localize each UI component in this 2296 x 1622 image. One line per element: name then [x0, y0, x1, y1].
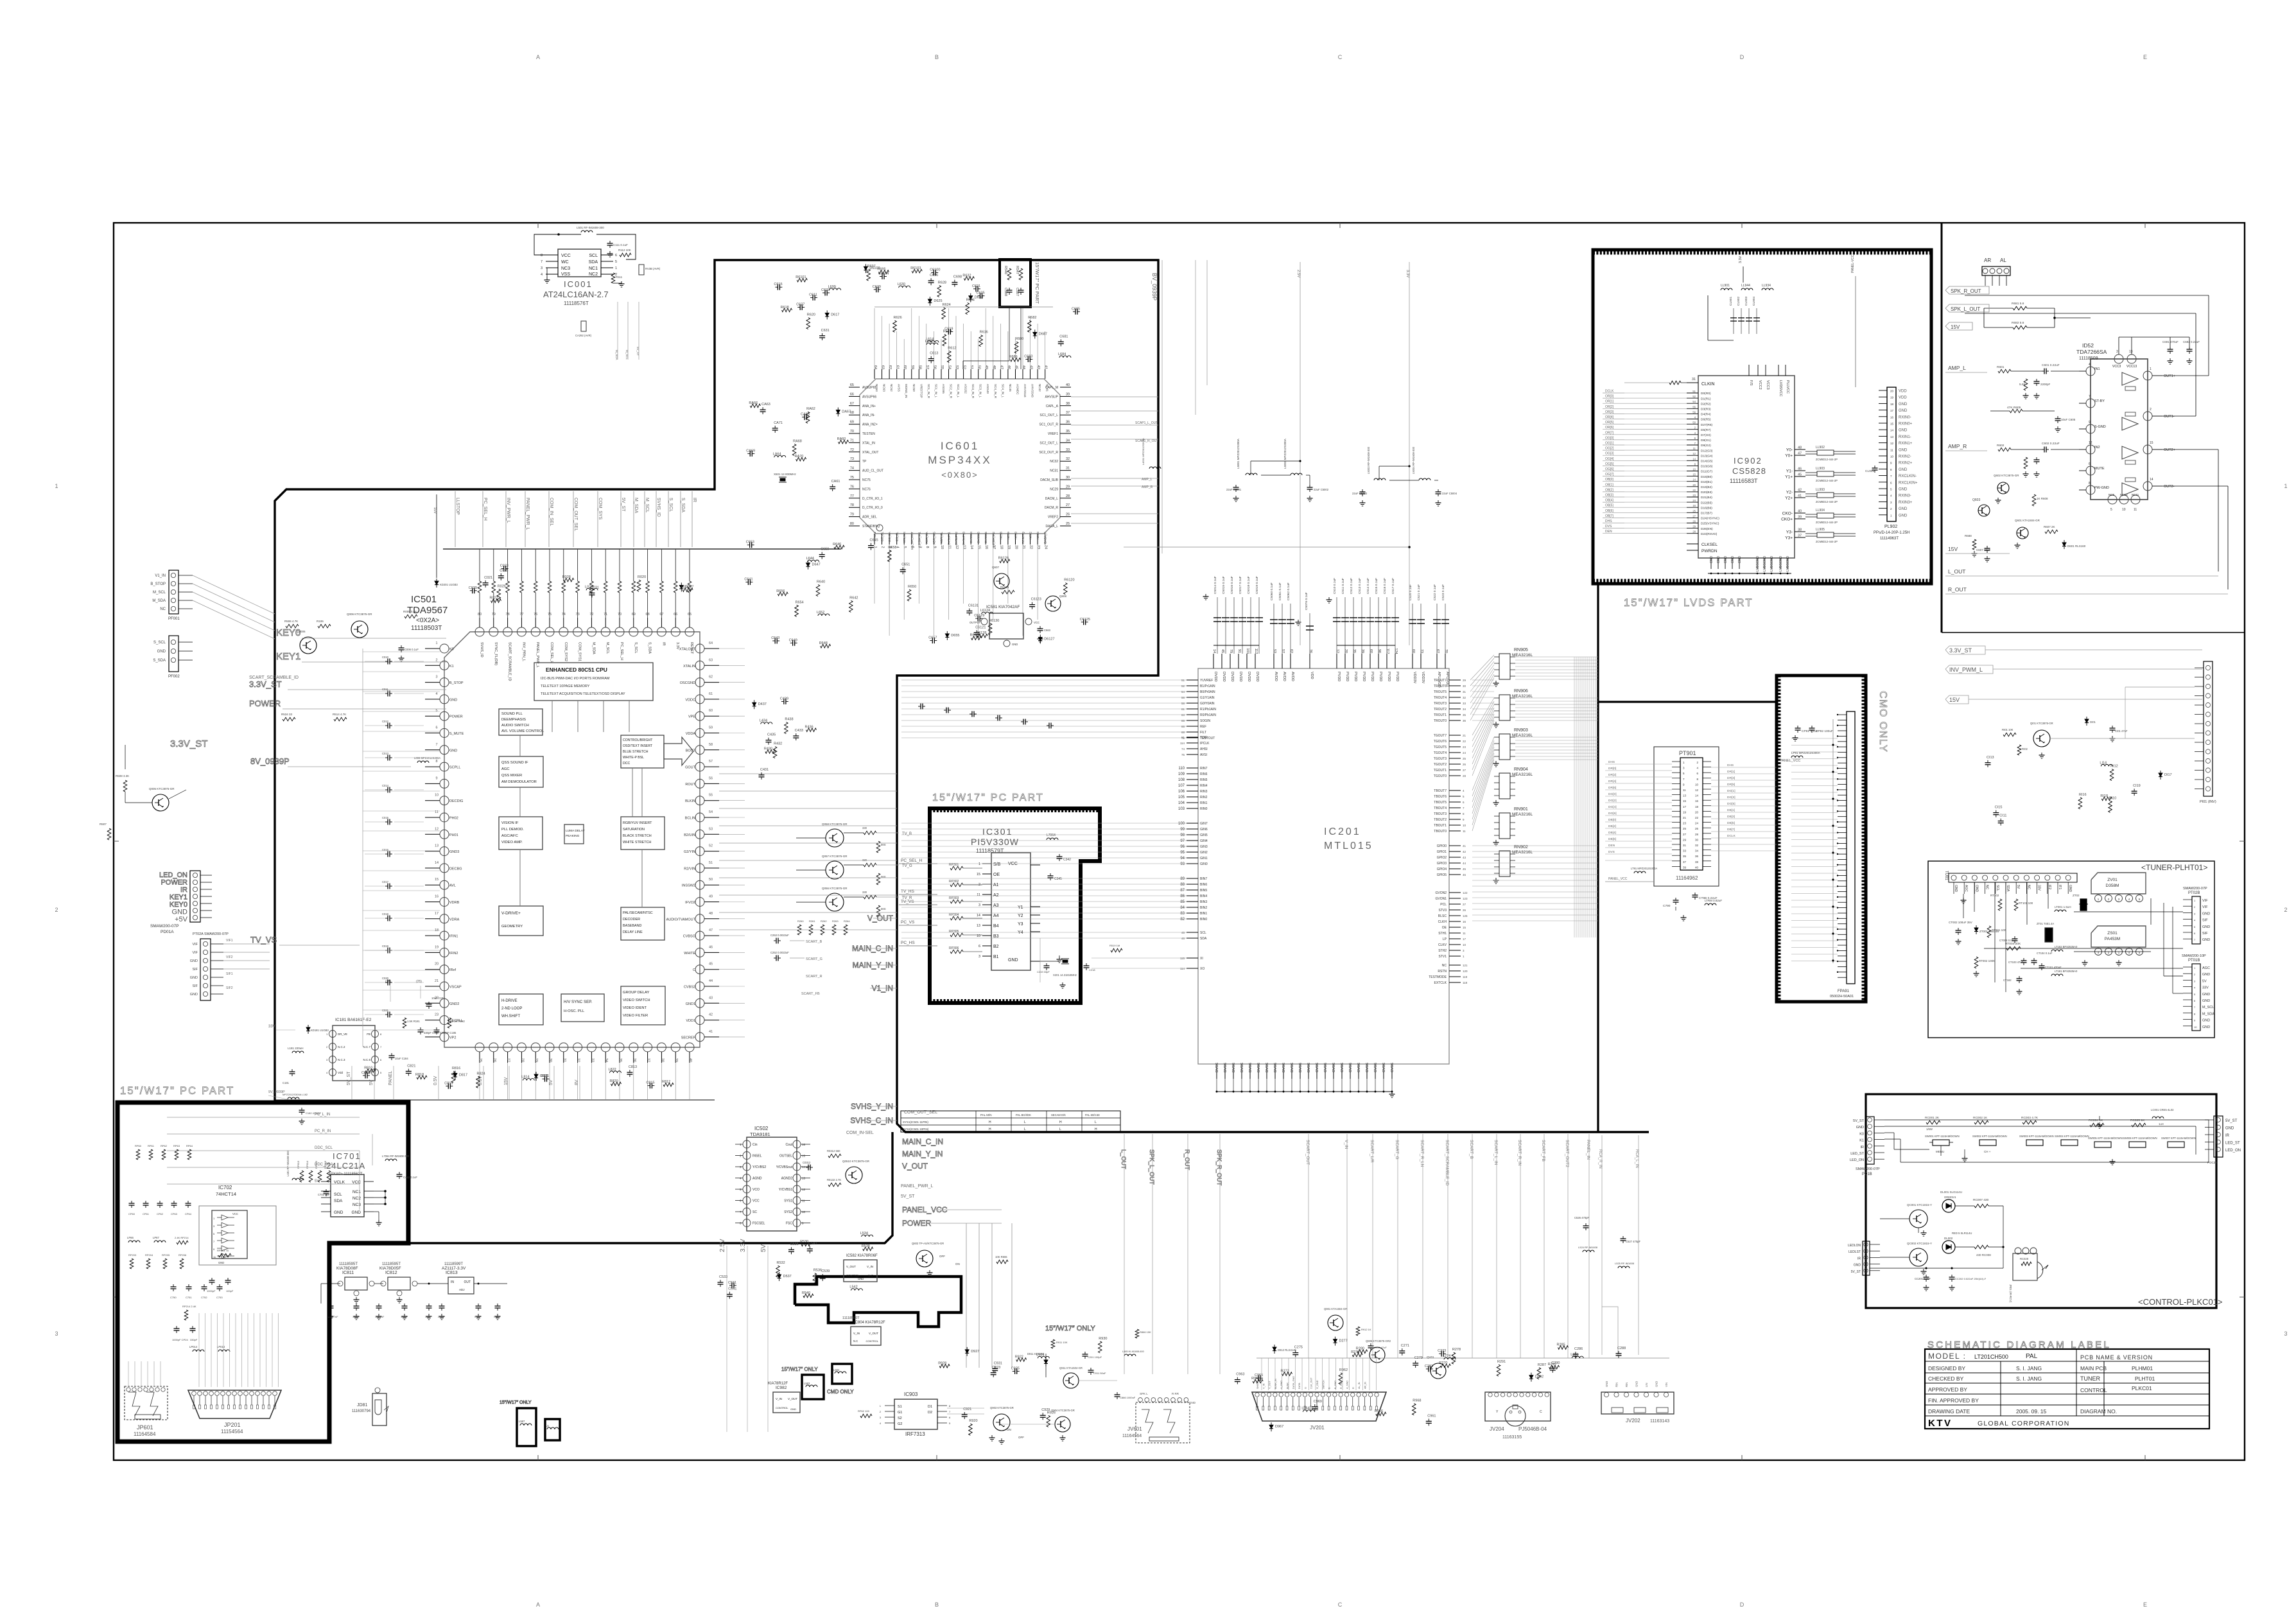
svg-text:Q006 KTC3875-GR: Q006 KTC3875-GR — [347, 613, 372, 616]
IC501 left pin row — [440, 644, 449, 653]
svg-text:29: 29 — [534, 1058, 538, 1062]
svg-text:POC2A: POC2A — [2207, 1161, 2217, 1164]
svg-text:GREEN 5: GREEN 5 — [1944, 1196, 1956, 1199]
svg-text:18: 18 — [1695, 805, 1699, 808]
op-amp IC501 TDA9567 body — [444, 632, 700, 1047]
svg-text:C521 0.1uF: C521 0.1uF — [1417, 584, 1421, 600]
svg-text:67: 67 — [1436, 649, 1439, 653]
resistor R642 — [849, 600, 853, 612]
svg-text:LL903: LL903 — [1816, 467, 1825, 471]
svg-text:SIF: SIF — [192, 968, 198, 972]
svg-text:GND: GND — [190, 959, 198, 963]
svg-text:3: 3 — [978, 955, 980, 959]
svg-text:DG[6]: DG[6] — [1608, 812, 1617, 815]
svg-text:LIN: LIN — [1645, 1382, 1648, 1387]
IC501 top pin row — [475, 627, 484, 636]
svg-text:C5062 0.1uF: C5062 0.1uF — [1287, 582, 1291, 600]
svg-text:R111: R111 — [616, 275, 623, 279]
wire IC201 left long buses — [901, 932, 1187, 933]
transistor Q005 standby — [152, 794, 169, 811]
svg-text:RA70: RA70 — [795, 455, 804, 458]
transistor Q057 KTC3875-GR — [826, 861, 844, 879]
svg-text:RP60: RP60 — [135, 1144, 142, 1147]
capacitor C615 — [775, 286, 778, 288]
svg-text:LP66: LP66 — [127, 1236, 134, 1239]
capacitor CL906 PL902 — [1874, 466, 1875, 468]
resistor R618 — [782, 308, 792, 312]
svg-text:5: 5 — [435, 709, 437, 713]
svg-text:R686: R686 — [1009, 355, 1018, 359]
net flag SPK_R_OUT — [1945, 286, 1989, 294]
svg-text:G_GND: G_GND — [1316, 1380, 1319, 1389]
capacitor CT103 — [2023, 958, 2024, 961]
svg-text:ADR_WS: ADR_WS — [932, 532, 935, 545]
svg-text:RXIN0-: RXIN0- — [1899, 415, 1911, 419]
svg-text:DG[4]: DG[4] — [1608, 805, 1617, 809]
transistor Q904 — [1055, 1417, 1070, 1432]
svg-text:CLKSEL: CLKSEL — [1701, 543, 1718, 547]
svg-text:CC202 0.022uF 25V(AX)-F: CC202 0.022uF 25V(AX)-F — [1955, 1277, 1987, 1280]
capacitor C286 — [1575, 1352, 1576, 1354]
svg-text:L542: L542 — [849, 1286, 857, 1289]
svg-text:H: H — [1059, 1121, 1062, 1124]
svg-text:CT104 0.1uF: CT104 0.1uF — [2037, 952, 2053, 955]
resistor RV3B eeprom — [639, 265, 644, 275]
svg-text:29: 29 — [1066, 485, 1070, 489]
svg-text:NC31: NC31 — [1050, 469, 1058, 473]
IC501 right pin row — [695, 644, 704, 653]
resistor R112 eeprom — [620, 253, 631, 257]
svg-text:ZCM8D12-444-2P: ZCM8D12-444-2P — [1816, 500, 1838, 503]
svg-text:V_IN: V_IN — [853, 1332, 860, 1335]
svg-text:27: 27 — [1683, 833, 1687, 836]
caps around regulators — [330, 1304, 331, 1306]
capacitor C439 — [781, 701, 784, 702]
svg-text:D: D — [1740, 1601, 1744, 1608]
svg-text:D601 RLS160: D601 RLS160 — [2067, 545, 2086, 548]
svg-text:ST-BY: ST-BY — [2094, 399, 2105, 403]
svg-text:15: 15 — [977, 545, 981, 549]
svg-text:GND: GND — [1899, 507, 1908, 511]
svg-text:M_SCL: M_SCL — [2202, 1006, 2214, 1009]
svg-text:Y1-: Y1- — [1786, 469, 1793, 474]
ground eeprom pins — [546, 277, 548, 280]
IC902 bottom ground pins — [1710, 558, 1712, 569]
svg-text:LVDSGND: LVDSGND — [1770, 556, 1774, 571]
svg-text:BLUE STRETCH: BLUE STRETCH — [623, 750, 648, 754]
block CONTROL/BRIGHT OSD — [621, 735, 664, 768]
svg-text:19: 19 — [1007, 545, 1011, 549]
svg-text:AVL VOLUME CONTROL: AVL VOLUME CONTROL — [501, 729, 544, 733]
svg-text:RP63: RP63 — [173, 1144, 180, 1147]
svg-text:15V: 15V — [433, 507, 437, 514]
svg-text:CI01 47uF: CI01 47uF — [2115, 729, 2128, 733]
block ENHANCED 80C51 CPU — [534, 663, 653, 701]
svg-text:VCC: VCC — [1008, 862, 1018, 866]
svg-text:10: 10 — [802, 1210, 806, 1214]
svg-text:RIN: RIN — [1615, 1382, 1619, 1387]
svg-text:L814: L814 — [521, 1076, 529, 1079]
svg-text:NC2: NC2 — [589, 272, 598, 277]
svg-text:39: 39 — [674, 1058, 678, 1062]
diode D633 — [969, 296, 973, 300]
svg-text:34: 34 — [1695, 850, 1699, 853]
connector PI01 inverter — [2204, 661, 2213, 796]
svg-text:TBOUT7: TBOUT7 — [1434, 789, 1447, 793]
svg-text:C692 0.22uF: C692 0.22uF — [2183, 340, 2200, 344]
svg-text:RESETQ: RESETQ — [1022, 532, 1025, 544]
svg-text:R626: R626 — [894, 316, 902, 320]
svg-text:34: 34 — [1066, 439, 1070, 442]
svg-text:12: 12 — [1335, 649, 1339, 653]
svg-text:15: 15 — [977, 873, 980, 876]
svg-text:S_MUTE: S_MUTE — [449, 732, 464, 736]
svg-text:GND3: GND3 — [449, 850, 459, 854]
svg-text:R005 5.6K: R005 5.6K — [403, 610, 417, 613]
resistor RC029 — [2021, 1262, 2031, 1266]
svg-text:G2/YIN: G2/YIN — [684, 850, 695, 854]
svg-text:VDD: VDD — [1310, 672, 1314, 679]
svg-text:45: 45 — [709, 963, 713, 966]
svg-text:27: 27 — [1463, 769, 1466, 772]
svg-text:R261: R261 — [809, 920, 815, 923]
IC601 bottom pin row — [874, 534, 875, 545]
capacitor CI11 — [2000, 819, 2001, 821]
svg-text:DA67: DA67 — [842, 410, 851, 414]
svg-text:28: 28 — [520, 1058, 524, 1062]
svg-text:Q905 KTC3875-GR2: Q905 KTC3875-GR2 — [1366, 1339, 1391, 1343]
svg-text:R_OUT: R_OUT — [1183, 1149, 1190, 1170]
svg-text:15V: 15V — [1949, 697, 1960, 703]
resistor R930 — [1099, 1341, 1102, 1353]
svg-text:C961: C961 — [1427, 1414, 1436, 1418]
svg-text:D277: D277 — [1339, 1339, 1348, 1343]
svg-text:ID52: ID52 — [2082, 342, 2094, 349]
svg-text:R612: R612 — [948, 347, 956, 351]
svg-text:KD201 U1GB3: KD201 U1GB3 — [440, 583, 458, 586]
svg-text:R: R — [1352, 1387, 1355, 1389]
IC301 pin labels — [982, 863, 991, 864]
wire CMO connector nets — [1791, 738, 1838, 739]
inductor L4531 BV net — [1149, 467, 1161, 469]
crystal X201 — [1063, 960, 1068, 963]
svg-text:RIN3: RIN3 — [1200, 790, 1208, 794]
capacitor C541 — [729, 1292, 730, 1295]
svg-text:RXIN3+: RXIN3+ — [1899, 501, 1913, 505]
svg-text:I2S_DA_OUT: I2S_DA_OUT — [910, 532, 914, 550]
capacitor C535 — [791, 1247, 792, 1250]
svg-text:L501 RF-IM1608-300: L501 RF-IM1608-300 — [577, 226, 604, 229]
svg-text:G1/Y1AIN: G1/Y1AIN — [1200, 696, 1215, 700]
svg-text:DESIGNED BY: DESIGNED BY — [1928, 1365, 1965, 1372]
arrow RGB output — [664, 737, 693, 765]
svg-text:CL904: CL904 — [1752, 297, 1756, 306]
capacitor C663 — [1039, 626, 1041, 629]
regulator IC812 KIA78D05F — [388, 1277, 410, 1290]
svg-text:51: 51 — [1181, 679, 1185, 682]
capacitor bank AVDD — [1273, 604, 1274, 654]
capacitor C819 — [446, 1085, 448, 1086]
svg-text:13: 13 — [977, 924, 980, 928]
resistor RP313 — [218, 1253, 231, 1257]
svg-text:SW003 KPT-1115AM/DOWN: SW003 KPT-1115AM/DOWN — [2019, 1135, 2054, 1138]
capacitor C219 xtal — [1046, 963, 1047, 966]
svg-text:DCC: DCC — [623, 762, 630, 765]
svg-text:15: 15 — [1463, 926, 1466, 929]
svg-text:DG[3]: DG[3] — [1727, 796, 1735, 799]
capacitor C5L1 — [385, 693, 388, 694]
diode D027 — [679, 585, 683, 589]
op-amp IC201 MTL015 body — [1198, 668, 1449, 1064]
svg-text:PAL 60/3.58: PAL 60/3.58 — [1085, 1113, 1100, 1117]
svg-text:TGOUT6: TGOUT6 — [1434, 740, 1447, 744]
diode D6102 — [864, 266, 867, 270]
resistor R6130 — [988, 624, 992, 635]
svg-text:C279: C279 — [1414, 1356, 1423, 1360]
svg-text:OG[6]: OG[6] — [1605, 467, 1614, 471]
svg-text:OB[7]: OB[7] — [1605, 514, 1613, 518]
svg-text:GND: GND — [1738, 556, 1742, 564]
svg-text:R_OUT: R_OUT — [1948, 586, 1967, 593]
svg-text:SOGIN: SOGIN — [1200, 719, 1211, 723]
svg-text:D967: D967 — [1275, 1425, 1283, 1429]
resistor R538 — [863, 1247, 873, 1251]
svg-text:6: 6 — [615, 254, 617, 257]
svg-text:C271: C271 — [1401, 1344, 1409, 1348]
svg-text:L684: L684 — [1058, 353, 1066, 356]
svg-text:MSP34XX: MSP34XX — [928, 454, 991, 466]
resistor R285 — [1558, 1346, 1569, 1350]
svg-text:DACM_L: DACM_L — [1045, 497, 1059, 501]
svg-text:DECODER: DECODER — [623, 918, 640, 921]
svg-text:PAL M/N: PAL M/N — [980, 1113, 992, 1117]
svg-text:C753: C753 — [216, 1296, 223, 1299]
svg-text:BIN4: BIN4 — [1200, 894, 1207, 898]
box CONTROL-PLKC01 outline — [1866, 1094, 2216, 1308]
svg-text:NC23: NC23 — [1036, 532, 1039, 539]
transistor ZT01 tuner — [2045, 928, 2053, 942]
svg-text:R930: R930 — [1099, 1337, 1107, 1341]
svg-text:20: 20 — [435, 963, 439, 966]
transistor Q901 pwr — [1328, 1315, 1343, 1330]
capacitor C181 C182 — [291, 1069, 293, 1072]
resistor R287 — [1537, 1368, 1541, 1379]
capacitor C811 — [543, 1078, 545, 1079]
svg-text:46: 46 — [1181, 937, 1185, 940]
svg-text:C683: C683 — [1024, 355, 1032, 359]
svg-text:DR[3]: DR[3] — [1727, 776, 1735, 780]
svg-text:CAPL_A: CAPL_A — [1046, 405, 1059, 408]
led DL001 green — [1942, 1199, 1955, 1212]
svg-text:3.3V: 3.3V — [1739, 256, 1743, 263]
svg-text:23: 23 — [1036, 545, 1040, 549]
mini thick box L588 — [545, 1419, 560, 1440]
svg-text:74: 74 — [850, 467, 854, 471]
wire led circuit — [1880, 1218, 1909, 1219]
resistor RA62 — [806, 412, 810, 423]
svg-text:SPK L: SPK L — [1140, 1392, 1148, 1395]
svg-text:SC4_IN_R: SC4_IN_R — [994, 384, 997, 399]
svg-text:62: 62 — [888, 365, 892, 369]
svg-text:2005. 09. 15: 2005. 09. 15 — [2016, 1408, 2047, 1415]
wire Q057 nets — [796, 869, 826, 871]
regulator IC982 KJA78R12F — [773, 1392, 800, 1413]
svg-text:1: 1 — [615, 266, 617, 270]
svg-text:PH01: PH01 — [449, 833, 458, 837]
svg-text:RP302: RP302 — [949, 880, 959, 884]
capacitor C683 — [1025, 359, 1028, 360]
svg-text:G2: G2 — [898, 1422, 902, 1426]
svg-text:GND: GND — [2202, 993, 2210, 997]
svg-text:L7064: L7064 — [1047, 833, 1056, 837]
svg-text:VIN: VIN — [1665, 1382, 1668, 1387]
svg-text:D16(B6): D16(B6) — [1701, 506, 1712, 510]
svg-text:R0312 560: R0312 560 — [827, 1149, 840, 1153]
resistor R646 — [834, 545, 844, 549]
svg-text:IFVO2: IFVO2 — [685, 901, 695, 905]
resistor R920 — [969, 1424, 973, 1435]
svg-text:100pF: 100pF — [226, 1289, 234, 1293]
resistor network RN904 MEA3216L — [1499, 773, 1510, 799]
pin 1 marker IC601 — [876, 525, 883, 531]
svg-text:C: C — [693, 968, 695, 972]
capacitor CP91 CMO — [1797, 726, 1798, 728]
svg-text:34: 34 — [1463, 708, 1466, 711]
svg-text:C5015 0.1uF: C5015 0.1uF — [1222, 576, 1226, 594]
svg-text:50: 50 — [1692, 421, 1696, 424]
resistor RT102 — [1998, 899, 2002, 911]
resistor R536 — [813, 1273, 817, 1285]
svg-text:CP60: CP60 — [128, 1212, 135, 1216]
svg-text:VDD: VDD — [1899, 396, 1907, 400]
capacitor C923 — [993, 1370, 994, 1373]
transistor Q911 pwr — [1063, 1373, 1079, 1388]
svg-text:L5004 RF-IM1608-300: L5004 RF-IM1608-300 — [1412, 446, 1415, 474]
svg-text:TUNER: TUNER — [2080, 1375, 2100, 1382]
svg-text:14: 14 — [1890, 429, 1894, 432]
svg-text:DVSS: DVSS — [1249, 1063, 1253, 1072]
svg-text:IC582 KIA78R06F: IC582 KIA78R06F — [846, 1254, 878, 1258]
resistor R654 — [795, 605, 799, 616]
svg-text:R816: R816 — [452, 1067, 460, 1070]
svg-text:Q603: Q603 — [1972, 498, 1980, 502]
capacitor C273 — [1439, 1353, 1441, 1354]
svg-text:84: 84 — [1180, 906, 1185, 910]
svg-text:H: H — [989, 1121, 991, 1124]
svg-text:RIN1: RIN1 — [1200, 801, 1208, 805]
svg-text:CVSS: CVSS — [1341, 1063, 1344, 1072]
svg-text:GPIO3: GPIO3 — [1437, 862, 1447, 866]
svg-text:43: 43 — [709, 996, 713, 1000]
svg-text:CMD ONLY: CMD ONLY — [827, 1389, 854, 1395]
wire YUV coupling caps — [918, 706, 921, 707]
wire PT02A nets — [223, 943, 270, 945]
svg-text:B_GND: B_GND — [1334, 1381, 1337, 1389]
svg-text:C750: C750 — [170, 1296, 177, 1299]
svg-text:430 RC008: 430 RC008 — [1976, 1253, 1991, 1257]
transistor Q602 audio mute — [1997, 482, 2009, 494]
svg-text:A1: A1 — [993, 883, 999, 887]
svg-text:R920: R920 — [969, 1419, 977, 1423]
svg-text:PVDD: PVDD — [1387, 672, 1391, 681]
svg-text:330pF: 330pF — [190, 1338, 198, 1341]
svg-text:31: 31 — [1683, 844, 1687, 847]
svg-text:117: 117 — [1386, 649, 1389, 654]
IC501 bottom pin row — [475, 1043, 484, 1052]
resistor load Q057 — [876, 873, 880, 885]
svg-text:106: 106 — [1178, 790, 1185, 794]
svg-text:39: 39 — [1361, 649, 1364, 653]
svg-text:VP2: VP2 — [449, 1036, 456, 1040]
wire key matrix — [1893, 1133, 1895, 1149]
svg-text:VIDEO SWITCH: VIDEO SWITCH — [623, 998, 650, 1002]
svg-text:RIN7: RIN7 — [1200, 767, 1208, 771]
svg-text:C253 0.0022uF: C253 0.0022uF — [770, 934, 789, 937]
svg-text:CKO-: CKO- — [1782, 512, 1793, 516]
svg-text:57: 57 — [925, 365, 929, 369]
svg-text:I2C-BUS PWM-DAC I/O PORTS: I2C-BUS PWM-DAC I/O PORTS ROM/RAM — [541, 677, 610, 681]
svg-text:K0: K0 — [1859, 1132, 1864, 1136]
svg-text:ASG52: ASG52 — [964, 384, 968, 394]
svg-text:VCO: VCO — [752, 1188, 760, 1192]
svg-text:60: 60 — [1411, 649, 1415, 653]
wire IC201 GIN BIN nets — [901, 823, 1187, 824]
svg-text:RP62: RP62 — [161, 1144, 168, 1147]
svg-text:IC813: IC813 — [446, 1271, 458, 1275]
svg-text:19: 19 — [1890, 396, 1894, 399]
svg-text:<TUNER-PLHT01>: <TUNER-PLHT01> — [2141, 863, 2207, 872]
svg-text:NC32: NC32 — [1050, 460, 1058, 464]
svg-text:IC201: IC201 — [1324, 826, 1361, 837]
svg-text:AZ1117-3.3V: AZ1117-3.3V — [442, 1266, 466, 1271]
inductor L822 — [609, 1071, 621, 1073]
svg-text:4: 4 — [2089, 363, 2091, 367]
capacitor column pc left — [131, 1201, 132, 1203]
svg-text:52: 52 — [1181, 685, 1185, 688]
svg-text:BLKIN: BLKIN — [685, 799, 695, 803]
svg-text:22: 22 — [1692, 489, 1696, 492]
capacitor bank C5014-C5120 DVDD — [1217, 597, 1218, 654]
wire jp601 drops — [128, 1361, 129, 1386]
svg-text:51: 51 — [1692, 390, 1696, 393]
svg-text:OUTSEL: OUTSEL — [779, 1155, 792, 1158]
svg-text:VIF1: VIF1 — [226, 939, 233, 943]
svg-text:GND: GND — [1655, 1381, 1658, 1387]
svg-text:IRef: IRef — [449, 968, 457, 972]
op-amp IC301 PI5V330W body — [991, 853, 1031, 970]
svg-text:S2: S2 — [898, 1417, 902, 1420]
svg-text:LC001 CRE5-4L03: LC001 CRE5-4L03 — [2151, 1108, 2174, 1112]
inductor LT181 — [2051, 974, 2063, 976]
svg-text:QV01: QV01 — [1427, 1356, 1434, 1359]
svg-text:Y/CVBS1: Y/CVBS1 — [779, 1188, 792, 1192]
svg-text:IC702: IC702 — [218, 1185, 232, 1190]
resistor R022 — [491, 599, 501, 603]
svg-text:RP61: RP61 — [148, 1144, 155, 1147]
svg-text:26: 26 — [1463, 909, 1466, 912]
svg-text:10: 10 — [435, 794, 439, 798]
wire partition LVDS-to-CMO boundary — [1597, 584, 1599, 1132]
svg-text:RI12: RI12 — [2110, 765, 2118, 769]
svg-text:R278: R278 — [1452, 1348, 1461, 1352]
svg-text:GND: GND — [190, 993, 198, 997]
svg-text:122: 122 — [1463, 891, 1468, 894]
svg-text:D13(G4): D13(G4) — [1701, 454, 1713, 458]
svg-text:C6131: C6131 — [968, 604, 978, 608]
wire IC702 box outline2 — [199, 1206, 276, 1265]
svg-text:91: 91 — [1237, 649, 1241, 653]
resistor R030 — [683, 588, 693, 592]
